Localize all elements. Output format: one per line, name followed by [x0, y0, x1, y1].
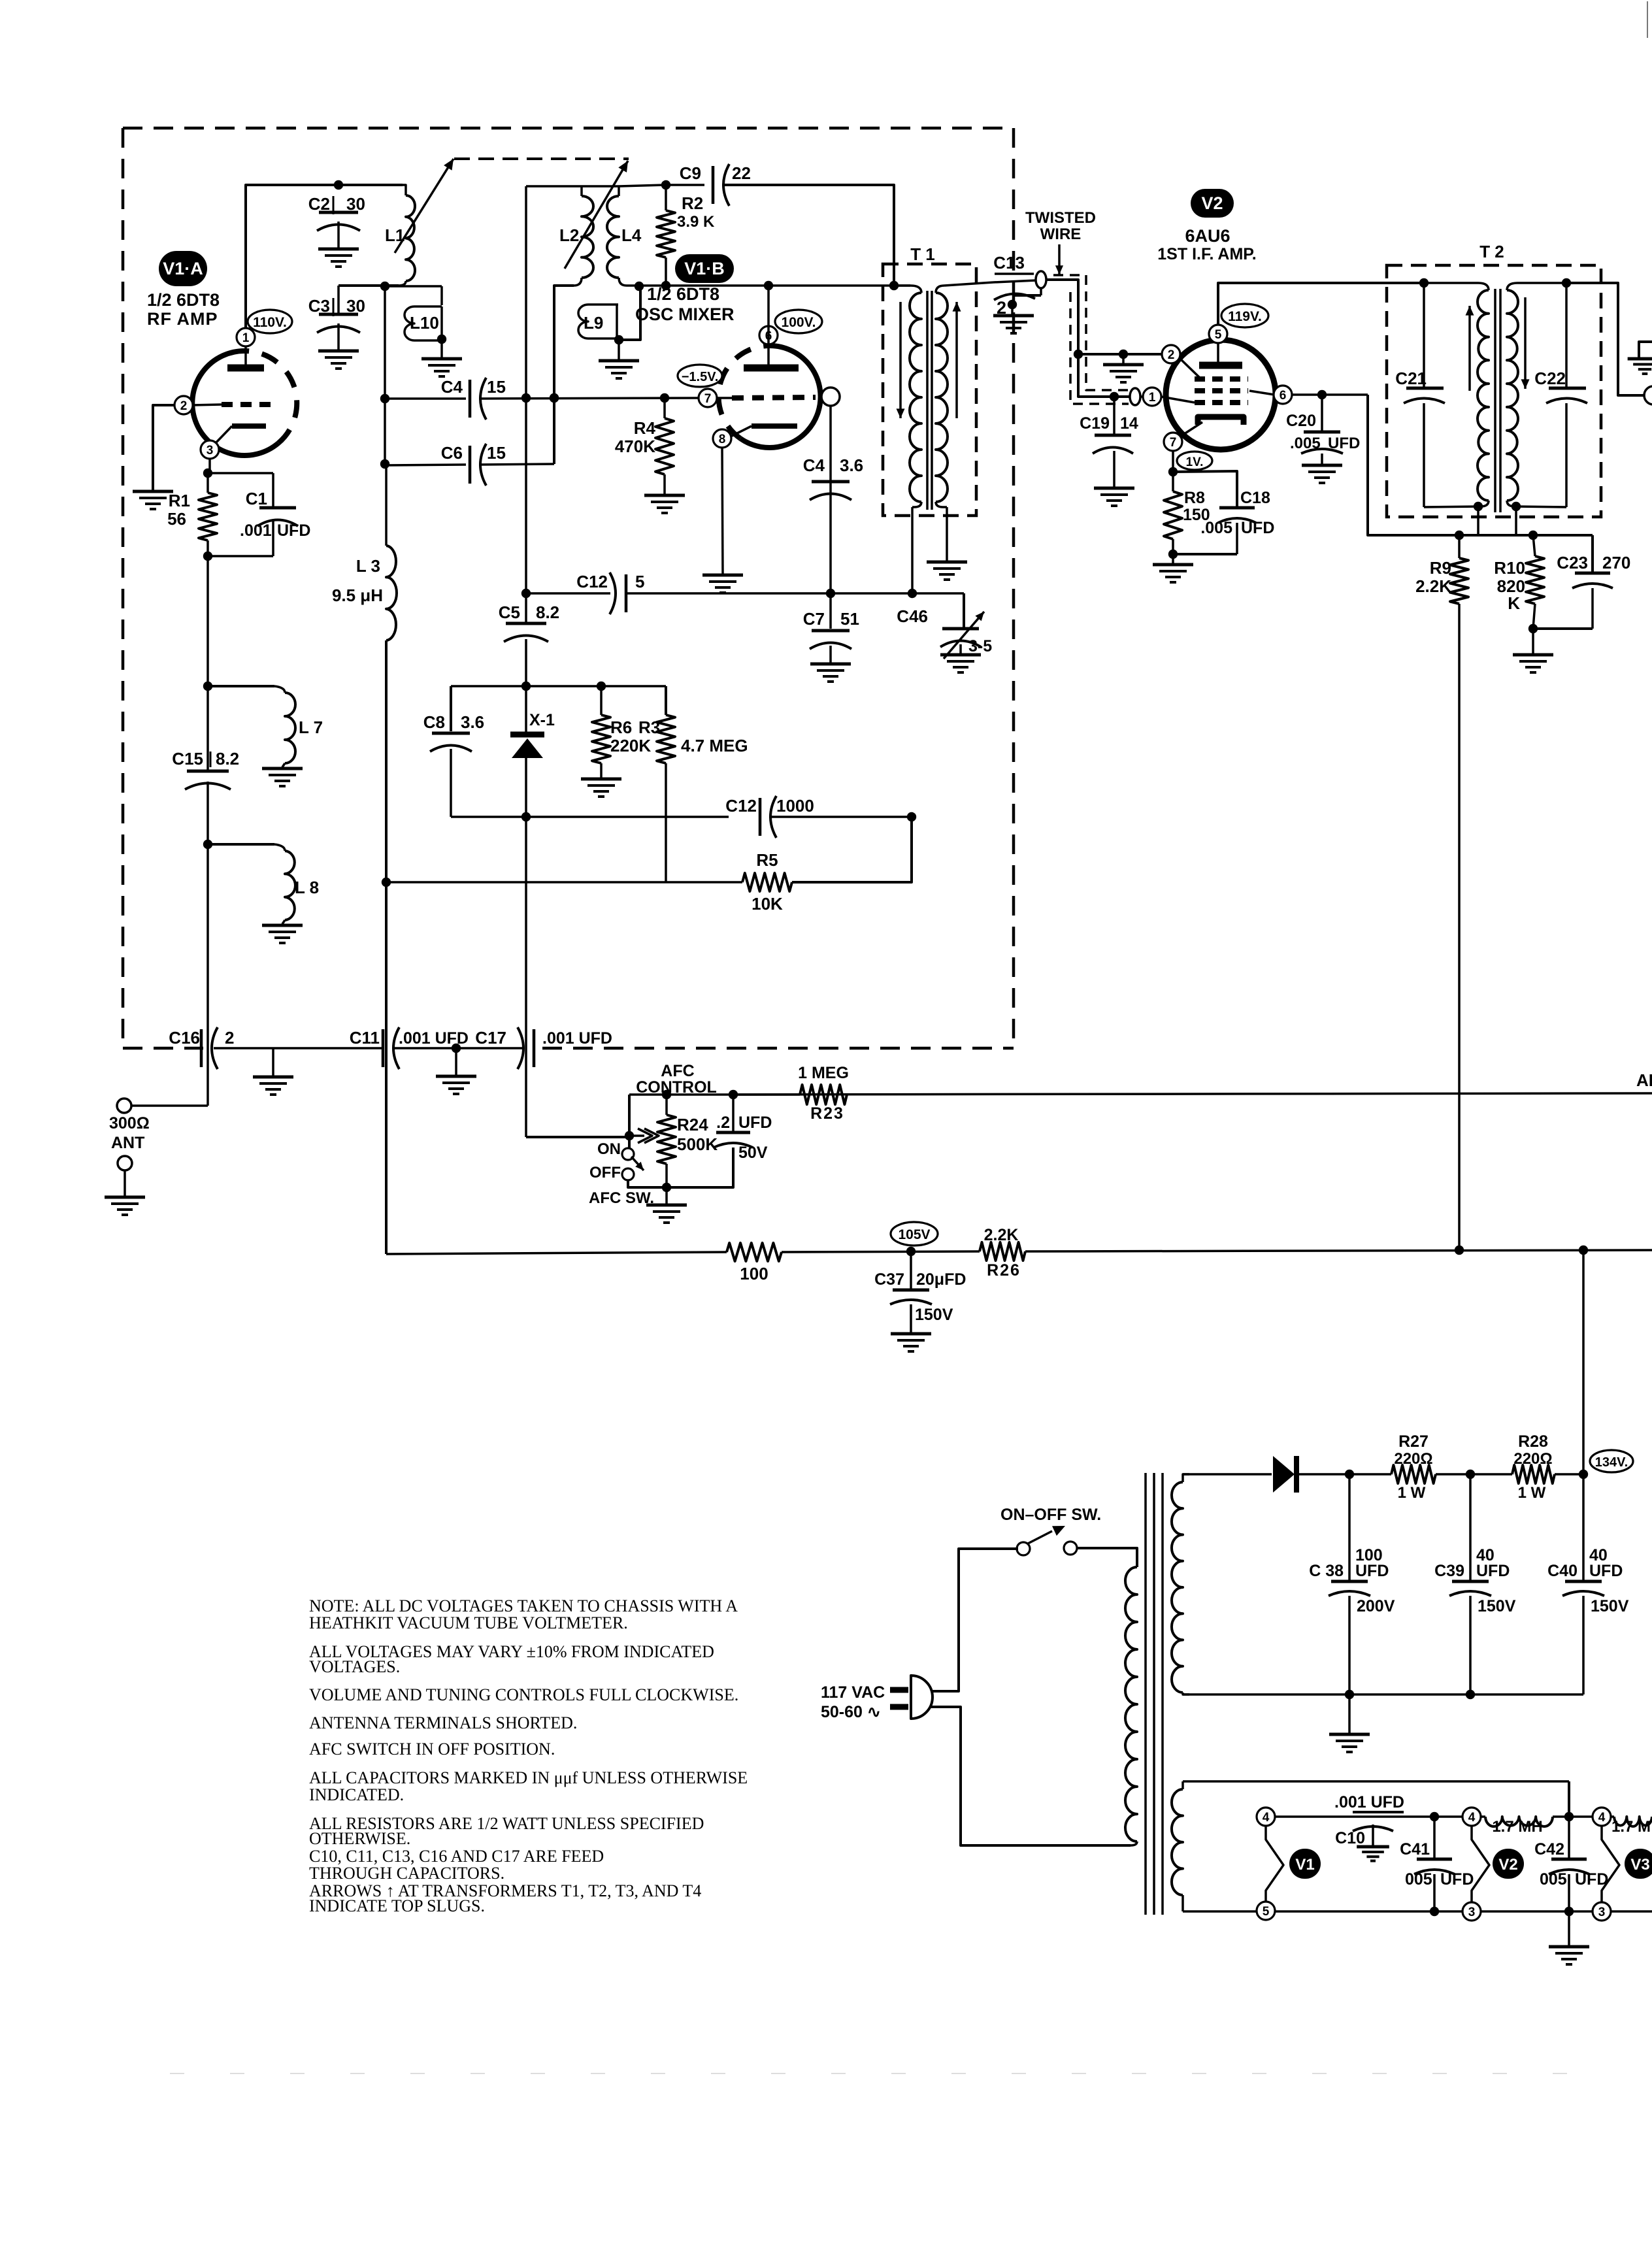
svg-text:7: 7: [704, 392, 712, 406]
step ground (top right): [1628, 342, 1652, 374]
label L1: [385, 225, 405, 245]
svg-text:C 38: C 38: [1309, 1562, 1344, 1580]
transformer T3 primary: [1125, 1567, 1137, 1845]
svg-text:1 W: 1 W: [1518, 1484, 1546, 1502]
voltage 134V: [1590, 1450, 1633, 1472]
svg-text:WIRE: WIRE: [1040, 225, 1082, 243]
ground (C42): [1549, 1911, 1589, 1964]
wire: pin8 to ground: [722, 447, 723, 574]
svg-text:R1: R1: [169, 491, 190, 510]
twisted wire shield dashes: [1053, 275, 1129, 404]
capacitor C1: [208, 473, 298, 556]
svg-text:−1.5V.: −1.5V.: [682, 370, 719, 384]
wire: AFC line from control to ratio detector: [733, 1093, 1652, 1095]
V1-B grid dashes: [716, 397, 816, 398]
capacitor C22: [1534, 283, 1587, 507]
svg-text:.2: .2: [716, 1114, 730, 1132]
label 1.7 MH: [1492, 1818, 1542, 1836]
wire: AFC SW to ground bus: [628, 1180, 667, 1187]
label AFC (right edge): [1636, 1070, 1652, 1090]
V1-A cathode: [214, 426, 266, 444]
svg-text:L 7: L 7: [299, 718, 323, 737]
svg-text:R3: R3: [638, 718, 660, 737]
terminal: ANT ground: [118, 1156, 132, 1197]
wire: shield bus C16 to C11: [214, 1047, 383, 1049]
wire: T1 secondary bottom to ground: [943, 507, 947, 561]
label C18 .005 UFD: [1200, 489, 1274, 537]
svg-text:T 2: T 2: [1479, 242, 1504, 261]
svg-text:C5: C5: [499, 603, 520, 622]
svg-text:50V: 50V: [738, 1144, 768, 1162]
pin 3 (V1-A): [201, 440, 219, 459]
V2 grid row 2: [1195, 388, 1248, 393]
wire: osc grid vertical x=805: [525, 186, 527, 398]
switch AFC SW (ON contact): [622, 1148, 634, 1160]
svg-text:C1: C1: [246, 489, 267, 508]
V2 grid row 1: [1195, 376, 1248, 382]
svg-text:5: 5: [635, 572, 644, 591]
svg-text:R28: R28: [1518, 1432, 1548, 1451]
pin 8 (V1-B): [713, 429, 731, 448]
capacitor C40: [1547, 1474, 1629, 1694]
svg-text:R5: R5: [756, 850, 778, 870]
ground (C46): [940, 655, 981, 672]
ground tap (shield bus mid): [436, 1048, 476, 1094]
svg-text:V3: V3: [1630, 1856, 1649, 1874]
wire: antenna lead through shield: [131, 844, 208, 1106]
pin 7 (V2): [1164, 433, 1182, 451]
label AFC CONTROL: [636, 1062, 717, 1097]
resistor R28: [1512, 1465, 1555, 1483]
wire: 105V distribution line: [385, 640, 388, 1254]
V1-A grid dashes: [192, 405, 271, 405]
svg-text:150V: 150V: [1478, 1597, 1516, 1615]
inductor L8: [208, 844, 295, 924]
svg-text:C41: C41: [1400, 1840, 1430, 1858]
tube V2 envelope: [1166, 340, 1276, 450]
transformer T2 shield box: [1387, 265, 1601, 517]
svg-text:C8: C8: [423, 712, 445, 732]
wire: T2 secondary top: [1517, 278, 1571, 288]
label R9 2.2K: [1415, 558, 1451, 596]
variable arrow through L1: [395, 159, 454, 253]
V1-B cathode: [731, 426, 797, 437]
svg-text:ANT: ANT: [111, 1134, 144, 1152]
svg-text:40: 40: [1476, 1546, 1495, 1564]
svg-text:AFC SW.: AFC SW.: [589, 1189, 654, 1207]
svg-text:UFD: UFD: [738, 1114, 772, 1132]
svg-text:3: 3: [1468, 1906, 1476, 1919]
wire: top bus to C9/R2 junction: [619, 180, 670, 190]
svg-text:INDICATE TOP SLUGS.: INDICATE TOP SLUGS.: [309, 1896, 485, 1915]
svg-text:V1·A: V1·A: [163, 259, 203, 278]
label R10 820K: [1494, 558, 1525, 613]
ground (terminal 2): [993, 316, 1034, 333]
R24 wiper arrow: [629, 1129, 659, 1143]
label X-1: [529, 711, 555, 729]
capacitor C4 3.6 (grid cap): [803, 406, 863, 591]
label 100: [740, 1264, 768, 1283]
transformer T3 filament winding: [1172, 1781, 1183, 1911]
pin 5 (V2): [1209, 325, 1227, 343]
T1 secondary winding: [936, 286, 948, 507]
twisted wire pointer arrow: [1055, 244, 1063, 274]
pin 1 (V2): [1143, 388, 1161, 406]
ground (R8/C18): [1153, 554, 1193, 582]
ground tap (shield bus left): [253, 1048, 293, 1095]
svg-text:UFD: UFD: [1241, 519, 1274, 537]
rectifier diode: [1273, 1456, 1349, 1493]
resistor R3: [657, 715, 675, 882]
wire: twisted lead: [1046, 280, 1130, 397]
svg-text:C23: C23: [1557, 553, 1588, 572]
ON-OFF lever: [1028, 1526, 1065, 1544]
V2 cathode: [1180, 417, 1244, 437]
T2 primary winding: [1474, 283, 1489, 511]
V2 plate bar: [1199, 343, 1242, 365]
svg-text:C19: C19: [1080, 414, 1110, 433]
svg-text:2: 2: [1168, 348, 1175, 362]
svg-text:1: 1: [242, 331, 250, 345]
svg-text:R2: R2: [682, 193, 703, 213]
svg-text:R6: R6: [610, 718, 632, 737]
svg-text:UFD: UFD: [1328, 435, 1360, 452]
svg-text:3.6: 3.6: [840, 455, 863, 475]
svg-text:.001: .001: [240, 521, 272, 540]
capacitor C39: [1434, 1474, 1516, 1694]
resistor R26: [980, 1242, 1025, 1261]
svg-text:L10: L10: [410, 313, 439, 333]
svg-text:V2: V2: [1498, 1856, 1517, 1874]
wire: L2 bottom leg: [550, 286, 574, 464]
svg-text:C9: C9: [680, 163, 701, 183]
wire: V1 pin4 wire: [1274, 1812, 1463, 1821]
T2 slug arrow (down): [1521, 297, 1530, 389]
T2 slug arrow (up): [1466, 306, 1474, 391]
svg-text:L1: L1: [385, 225, 405, 245]
svg-text:15: 15: [487, 377, 506, 397]
ground (V1A grid return): [133, 491, 173, 509]
choke 1.7MH (V2-V3): [1480, 1812, 1593, 1826]
wire: line cord top: [931, 1549, 1018, 1691]
svg-text:AFC: AFC: [661, 1062, 694, 1080]
svg-text:150V: 150V: [915, 1306, 953, 1324]
feed-through bead C13: [1036, 271, 1046, 288]
resistor R10: [1526, 535, 1544, 633]
label V2: [1191, 189, 1234, 218]
ground (L7): [262, 768, 303, 786]
svg-text:100: 100: [740, 1264, 768, 1283]
capacitor C6 (series): [385, 443, 506, 486]
capacitor C12 5 (series): [526, 572, 644, 614]
svg-text:ALL CAPACITORS MARKED IN μμf U: ALL CAPACITORS MARKED IN μμf UNLESS OTHE…: [309, 1768, 748, 1787]
wire: R27 to R28: [1436, 1470, 1512, 1479]
pin 4 (V1 heater): [1257, 1808, 1275, 1826]
label L 8: [295, 878, 319, 897]
svg-text:2.2K: 2.2K: [1415, 576, 1451, 596]
wire: B+ rail: [1345, 1470, 1391, 1479]
svg-text:UFD: UFD: [1440, 1870, 1474, 1889]
svg-text:R10: R10: [1494, 558, 1525, 578]
svg-text:UFD: UFD: [1589, 1562, 1623, 1580]
wire: osc node vertical x=805 (C5 branch): [521, 398, 531, 623]
svg-text:C17: C17: [475, 1028, 506, 1048]
feed-through bead (V2 grid): [1130, 388, 1140, 405]
capacitor C8: [423, 686, 484, 817]
capacitor C2: [308, 194, 365, 249]
label R4 470K: [615, 418, 656, 456]
label L9: [584, 313, 603, 333]
svg-text:V1·B: V1·B: [684, 259, 725, 278]
resistor R27: [1391, 1465, 1436, 1483]
voltage -1.5V: [678, 365, 722, 387]
svg-text:C21: C21: [1395, 369, 1427, 388]
wire: T2 secondary bottom loop: [1515, 506, 1566, 535]
svg-text:C20: C20: [1286, 412, 1316, 430]
T2 core: [1495, 289, 1500, 512]
ground (V2 pin2): [1103, 365, 1144, 382]
inductor L9: [578, 287, 640, 344]
svg-text:TWISTED: TWISTED: [1025, 209, 1096, 227]
wire: line cord bottom: [931, 1707, 1131, 1845]
svg-text:8.2: 8.2: [536, 603, 559, 622]
svg-text:1ST I.F. AMP.: 1ST I.F. AMP.: [1157, 245, 1256, 263]
wire: grid line down from L1/C3 junction: [380, 286, 389, 469]
label C16 2: [169, 1028, 234, 1048]
label V3 (heater): [1625, 1849, 1652, 1879]
svg-text:1 W: 1 W: [1398, 1484, 1426, 1502]
resistor R1: [199, 473, 217, 561]
ground (C20): [1302, 465, 1342, 483]
svg-text:500K: 500K: [677, 1134, 718, 1154]
wire: pin2 to ground: [153, 405, 175, 490]
label R28 220 1W: [1513, 1432, 1552, 1502]
resistor R4: [655, 398, 674, 494]
capacitor C16 (feed-through): [201, 1027, 218, 1069]
T1 slug arrow (down): [897, 302, 905, 418]
svg-text:5: 5: [1263, 1905, 1270, 1919]
svg-text:C4: C4: [803, 455, 825, 475]
inductor L4: [582, 186, 627, 286]
svg-text:2: 2: [225, 1028, 234, 1048]
resistor 100 ohm: [727, 1243, 782, 1261]
capacitor C9 (series): [666, 163, 751, 206]
ground (AFC): [646, 1187, 687, 1223]
AFC SW lever arrow: [631, 1157, 644, 1170]
svg-text:3.6: 3.6: [461, 712, 484, 732]
label L4: [621, 225, 642, 245]
ground (T1 secondary): [927, 562, 967, 580]
svg-text:C7: C7: [803, 609, 825, 629]
svg-text:40: 40: [1589, 1546, 1608, 1564]
svg-text:3-5: 3-5: [968, 637, 992, 655]
svg-text:117 VAC: 117 VAC: [821, 1683, 885, 1702]
svg-text:50-60 ∿: 50-60 ∿: [821, 1703, 881, 1721]
svg-text:220K: 220K: [610, 736, 651, 755]
label T 1: [910, 244, 935, 264]
capacitor .2UFD 50V (AFC): [667, 1095, 772, 1187]
capacitor C21: [1395, 283, 1445, 507]
capacitor C23: [1533, 535, 1630, 629]
svg-text:L4: L4: [621, 225, 642, 245]
label 1/2 6DT8 OSC MIXER: [635, 284, 735, 324]
svg-text:K: K: [1508, 593, 1520, 613]
label C17 .001 UFD: [475, 1028, 612, 1048]
label 1/2 6DT8 RF AMP: [147, 290, 220, 329]
resistor R23: [800, 1085, 847, 1104]
pin 3 (V2 heater): [1462, 1902, 1481, 1921]
capacitor C11 (feed-through): [383, 1027, 399, 1069]
label R2 3.9K: [677, 193, 715, 231]
svg-text:NOTE: ALL DC VOLTAGES TAKEN T: NOTE: ALL DC VOLTAGES TAKEN TO CHASSIS W…: [309, 1596, 738, 1615]
svg-text:220Ω: 220Ω: [1513, 1450, 1552, 1468]
capacitor C4 (series): [385, 377, 506, 420]
svg-text:L9: L9: [584, 313, 603, 333]
label T 2: [1479, 242, 1504, 261]
wire: T1 primary bottom lead: [912, 507, 914, 593]
label .001 UFD (C10): [1334, 1793, 1404, 1812]
pin 1 (V1-A): [237, 328, 255, 346]
svg-text:005: 005: [1540, 1870, 1567, 1889]
capacitor C20: [1286, 395, 1360, 464]
svg-text:INDICATED.: INDICATED.: [309, 1785, 404, 1804]
voltage 1V: [1177, 452, 1212, 470]
capacitor terminal 2 bypass: [994, 288, 1041, 318]
svg-text:R27: R27: [1398, 1432, 1429, 1451]
heater V2: [1472, 1825, 1489, 1902]
svg-text:C42: C42: [1534, 1840, 1564, 1858]
wire: pin3 to R1/C1 node: [203, 458, 273, 478]
transformer T1 shield box: [883, 264, 976, 516]
wire: R28 to 134V node: [1555, 1470, 1588, 1479]
inductor L1: [399, 185, 415, 286]
svg-text:R9: R9: [1430, 558, 1451, 578]
capacitor C38: [1309, 1474, 1395, 1694]
svg-text:C39: C39: [1434, 1562, 1464, 1580]
inductor L7: [208, 686, 295, 767]
label 300 ANT: [109, 1114, 150, 1152]
T1 primary winding: [910, 286, 921, 507]
svg-text:C3: C3: [308, 296, 330, 316]
transformer T3 HV secondary: [1172, 1474, 1272, 1694]
svg-text:C37: C37: [874, 1270, 904, 1289]
label ON / OFF / AFC SW.: [589, 1140, 654, 1207]
voltage 100V: [775, 310, 822, 333]
wire: AFC control top bus: [629, 1090, 800, 1099]
svg-text:3: 3: [206, 444, 214, 457]
shield border (main dashed box around tuner section): [123, 128, 1014, 1048]
inductor L3: [386, 465, 397, 640]
wire: HV secondary top to diode: [1183, 1473, 1272, 1476]
label L2: [559, 225, 579, 245]
label R5 10K: [752, 850, 783, 914]
tube V1-B envelope: [719, 346, 821, 448]
svg-text:220Ω: 220Ω: [1394, 1450, 1432, 1468]
wire: 105V line horizontal: [386, 1252, 727, 1254]
label L3 9.5uH: [332, 556, 383, 605]
pin 4 (V3 heater): [1593, 1808, 1611, 1826]
svg-text:C40: C40: [1547, 1562, 1578, 1580]
pin 5 (V1 heater): [1257, 1902, 1275, 1920]
V1-B plate bar: [744, 344, 799, 368]
ground (antenna): [105, 1197, 145, 1215]
svg-text:UFD: UFD: [1575, 1870, 1608, 1889]
T1 core: [927, 291, 932, 510]
wire: T2 out to V3 grid: [1566, 283, 1644, 395]
svg-text:L2: L2: [559, 225, 579, 245]
capacitor C5: [499, 603, 559, 686]
svg-text:.005: .005: [1200, 519, 1232, 537]
svg-text:3.9 K: 3.9 K: [677, 213, 715, 231]
wire: X-1 bottom bus: [451, 812, 729, 821]
svg-text:30: 30: [346, 194, 365, 214]
svg-text:L 8: L 8: [295, 878, 319, 897]
svg-text:THROUGH CAPACITORS.: THROUGH CAPACITORS.: [309, 1864, 504, 1883]
wire: 100ohm to R26: [782, 1247, 980, 1256]
svg-text:C4: C4: [441, 377, 463, 397]
svg-text:ON: ON: [597, 1140, 621, 1158]
resistor R9: [1450, 535, 1468, 604]
svg-text:AFC SWITCH IN OFF POSITION.: AFC SWITCH IN OFF POSITION.: [309, 1740, 555, 1759]
ground (C19): [1094, 488, 1134, 506]
wire: AFC left leg: [625, 1095, 634, 1149]
svg-text:VOLUME AND TUNING CONTROLS FUL: VOLUME AND TUNING CONTROLS FULL CLOCKWIS…: [309, 1685, 738, 1704]
svg-text:C11: C11: [350, 1028, 380, 1048]
V1-A plate bar: [227, 347, 264, 368]
wire: C6 to L2 leg: [479, 464, 554, 465]
svg-text:L 3: L 3: [356, 556, 380, 576]
switch ON-OFF (left contact): [1017, 1542, 1030, 1555]
label C15 8.2: [172, 749, 239, 768]
capacitor C17 (feed-through): [518, 1027, 534, 1069]
svg-text:UFD: UFD: [277, 521, 310, 540]
wire: V2 pin7 cathode to R8: [1168, 450, 1178, 476]
svg-text:R24: R24: [677, 1115, 708, 1134]
label R1 56: [167, 491, 190, 529]
wire: C17 feed-through lead down to AFC pot: [526, 817, 629, 1137]
ground (R6): [581, 779, 621, 797]
label C11 .001 UFD: [350, 1028, 469, 1048]
svg-text:7: 7: [1170, 436, 1177, 450]
label 2.2K R26: [984, 1226, 1021, 1280]
svg-text:1/2 6DT8: 1/2 6DT8: [647, 284, 719, 304]
potentiometer R24: [657, 1095, 676, 1192]
wire: R5 to T1 leg: [792, 817, 912, 882]
heater V1: [1266, 1825, 1283, 1902]
svg-text:1 MEG: 1 MEG: [798, 1064, 849, 1082]
svg-text:RF AMP: RF AMP: [147, 309, 218, 329]
svg-text:C15: C15: [172, 749, 203, 768]
inductor L10: [405, 306, 446, 344]
svg-text:C10: C10: [1335, 1829, 1365, 1847]
svg-text:OSC MIXER: OSC MIXER: [635, 305, 735, 324]
resistor R2: [657, 185, 675, 286]
svg-text:51: 51: [840, 609, 859, 629]
svg-text:R26: R26: [987, 1261, 1021, 1280]
terminal: 300 ohm ANT: [117, 1098, 131, 1113]
svg-text:OTHERWISE.: OTHERWISE.: [309, 1829, 410, 1848]
label 1MEG R23: [798, 1064, 849, 1123]
svg-text:100: 100: [1355, 1546, 1383, 1564]
svg-text:270: 270: [1602, 553, 1630, 572]
partial tube V3 grid circle: [1644, 386, 1652, 405]
capacitor C37: [874, 1251, 966, 1332]
label V1 (heater): [1289, 1849, 1321, 1879]
capacitor C18: [1173, 471, 1256, 554]
voltage 110V: [248, 310, 292, 333]
wire: R9 down to 105V line: [1458, 604, 1461, 1250]
svg-text:4: 4: [1468, 1811, 1476, 1825]
